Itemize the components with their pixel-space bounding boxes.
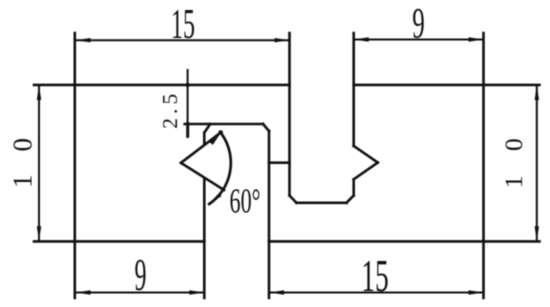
svg-text:9: 9 bbox=[412, 1, 425, 48]
svg-text:9: 9 bbox=[135, 250, 147, 300]
svg-text:2.5: 2.5 bbox=[158, 94, 182, 129]
svg-text:15: 15 bbox=[171, 2, 195, 48]
svg-text:60°: 60° bbox=[230, 182, 261, 221]
svg-text:15: 15 bbox=[361, 250, 389, 301]
